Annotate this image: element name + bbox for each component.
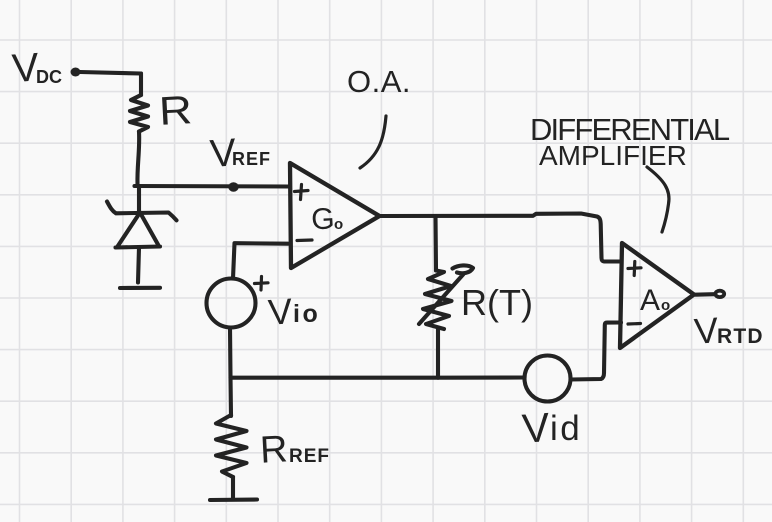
label Vid <box>521 404 583 452</box>
label VRTD <box>693 309 764 352</box>
svg-text:R: R <box>158 88 193 134</box>
resistor R <box>130 95 148 132</box>
svg-text:O.A.: O.A. <box>347 64 411 99</box>
zener diode cathode bar <box>107 202 177 221</box>
svg-text:DC: DC <box>36 67 62 87</box>
wire R(T) top <box>433 216 438 270</box>
svg-text:io: io <box>293 300 320 328</box>
ground below RREF <box>210 497 257 502</box>
ground below zener <box>120 286 160 290</box>
wire bottom rail <box>231 375 525 379</box>
svg-text:id: id <box>550 409 582 448</box>
svg-text:R(T): R(T) <box>461 282 533 323</box>
svg-text:RTD: RTD <box>717 325 764 348</box>
wire R(T) bottom <box>436 330 440 378</box>
op-amp U2 A0 triangle <box>620 243 694 348</box>
resistor RREF <box>216 415 247 477</box>
op-amp G0 plus sign <box>295 185 309 200</box>
Vio plus sign <box>255 277 269 291</box>
resistor R(T) <box>423 271 452 330</box>
node VDC terminal dot <box>71 68 81 77</box>
wire RREF to ground <box>231 477 235 498</box>
svg-text:V: V <box>267 290 294 333</box>
node VRTD output terminal <box>715 291 724 297</box>
wire op-amp minus input <box>236 241 288 246</box>
wire Vio to minus input <box>233 243 235 278</box>
source Vio circle <box>207 279 256 328</box>
wire op-amp output rail <box>380 214 622 262</box>
svg-text:REF: REF <box>232 149 271 169</box>
source Vid circle <box>525 356 571 402</box>
svg-text:AMPLIFIER: AMPLIFIER <box>539 140 687 171</box>
label VREF <box>209 131 271 176</box>
op-amp A0 plus sign <box>628 262 641 276</box>
label R(T) <box>461 282 533 323</box>
svg-text:REF: REF <box>289 446 330 467</box>
svg-text:o: o <box>334 216 343 233</box>
label Vio <box>267 290 320 333</box>
arrow through R(T) <box>419 265 473 324</box>
pointer curve from O.A. to op-amp <box>360 116 386 168</box>
wire zener to ground <box>138 248 139 283</box>
svg-text:V: V <box>693 309 720 352</box>
wire corner down to resistor R <box>139 74 143 96</box>
node VREF dot <box>228 182 238 192</box>
wire VDC to corner <box>80 72 141 74</box>
label DIFFERENTIAL <box>530 112 730 147</box>
svg-text:o: o <box>661 297 670 314</box>
zener diode triangle <box>116 213 161 248</box>
wire Vio down to junction and RREF <box>230 328 231 417</box>
label VDC <box>11 45 62 91</box>
op-amp G0 minus sign <box>297 238 312 242</box>
svg-text:R: R <box>259 428 289 471</box>
op-amp A0 minus sign <box>628 322 641 326</box>
label AMPLIFIER <box>539 140 687 171</box>
label R <box>158 88 193 134</box>
wire resistor R to node <box>137 132 139 185</box>
op-amp U1 G0 triangle <box>290 163 380 268</box>
wire A0 output <box>696 292 715 297</box>
label A0 <box>640 284 670 317</box>
label RREF <box>259 428 330 471</box>
svg-text:V: V <box>521 404 552 452</box>
wire Vid to A0 minus input <box>571 323 622 380</box>
wire node to op-amp + input <box>135 184 291 189</box>
svg-text:G: G <box>310 202 335 236</box>
pointer curve from AMPLIFIER to A0 <box>647 167 669 232</box>
svg-text:A: A <box>640 284 660 317</box>
label G0 <box>310 202 343 236</box>
wire node down to zener <box>137 186 141 212</box>
label O.A. <box>347 64 411 99</box>
